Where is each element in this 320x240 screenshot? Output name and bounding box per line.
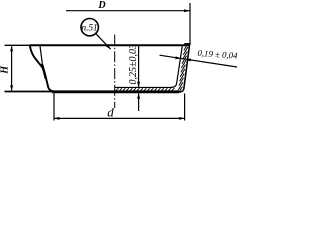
- svg-text:d: d: [107, 105, 114, 120]
- svg-text:0,25±0,03: 0,25±0,03: [128, 44, 139, 85]
- svg-text:H: H: [0, 65, 11, 75]
- svg-text:D: D: [97, 0, 105, 11]
- svg-text:п.51: п.51: [82, 23, 98, 33]
